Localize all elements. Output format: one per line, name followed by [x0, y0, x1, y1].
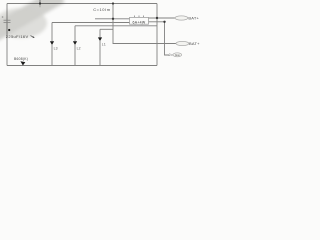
svg-text:L2: L2: [77, 46, 81, 50]
svg-text:L1: L1: [102, 42, 106, 46]
svg-text:6A+4W: 6A+4W: [132, 20, 145, 24]
svg-text:Gw: Gw: [175, 53, 181, 57]
svg-text:225uF/16V: 225uF/16V: [6, 34, 29, 39]
svg-text:B608(K): B608(K): [14, 57, 28, 61]
svg-text:BAT+: BAT+: [189, 41, 200, 46]
svg-text:BAT+: BAT+: [188, 16, 199, 21]
svg-text:L3: L3: [54, 46, 58, 50]
svg-text:C=10Im: C=10Im: [93, 7, 111, 12]
svg-text:J=: J=: [169, 53, 173, 57]
